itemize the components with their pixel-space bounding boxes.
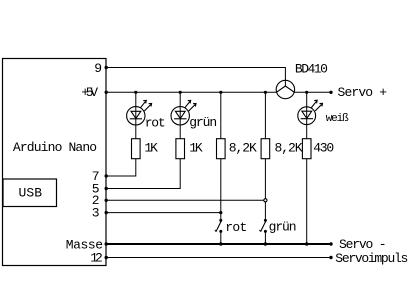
Arduino Nano box U1 [3, 59, 107, 266]
svg-text:8,2K: 8,2K [275, 140, 303, 155]
node junction S2 on Masse [264, 242, 267, 245]
node junction R5 on Masse [305, 242, 308, 245]
svg-text:rot: rot [145, 115, 166, 130]
wire rot LED column (rail to R1) [135, 92, 137, 139]
wire pin9 to transistor base [106, 68, 285, 87]
wire R2 bottom to pin5 corner [106, 159, 180, 189]
transistor Q1 BD410 [276, 80, 294, 98]
svg-text:Servo +: Servo + [338, 85, 388, 100]
pin 9 connection dot [105, 66, 108, 69]
resistor R1 1K [132, 139, 141, 159]
wire pin2 to node [106, 199, 265, 201]
svg-text:Servoimpuls: Servoimpuls [335, 251, 408, 266]
terminal dot Servoimpuls [329, 256, 332, 259]
wire R3 bottom to switch S1 [220, 159, 222, 221]
wire pin3 to node [106, 212, 221, 214]
node junction gruen LED column on +5V [179, 91, 182, 94]
wire R4 column (rail to R4) [264, 92, 266, 139]
node junction R3 column on +5V [219, 91, 222, 94]
node pin2 / R4 / S2 (open ring) [264, 199, 267, 202]
svg-text:9: 9 [94, 61, 102, 76]
wire +5V rail left segment [106, 91, 276, 93]
node junction R4 column on +5V [264, 91, 267, 94]
svg-text:12: 12 [90, 251, 103, 266]
resistor R2 1K [176, 139, 185, 159]
svg-text:8,2K: 8,2K [229, 140, 257, 155]
pin 12 connection dot [105, 256, 108, 259]
node junction rot LED column on +5V [134, 91, 137, 94]
svg-text:+5V: +5V [81, 85, 98, 100]
LED D1 rot [127, 100, 152, 125]
svg-text:rot: rot [225, 220, 247, 235]
node junction weiss column on emitter rail [305, 91, 308, 94]
pin 2 connection dot [105, 199, 108, 202]
terminal dot Servo + [329, 91, 332, 94]
node junction S1 on Masse [219, 242, 222, 245]
svg-text:USB: USB [19, 186, 43, 201]
wire R5 bottom to Masse rail [306, 159, 308, 244]
resistor R4 8,2K [261, 139, 270, 159]
wire R4 bottom to switch S2 [264, 159, 266, 221]
node junction pin3 / R3 / S1 [219, 211, 222, 214]
pin 7 connection dot [105, 174, 108, 177]
svg-text:weiß: weiß [326, 113, 349, 125]
USB box [3, 179, 57, 207]
svg-text:grün: grün [189, 115, 217, 130]
wire gruen LED column (rail to R2) [179, 92, 181, 139]
wire Masse rail [106, 243, 331, 245]
wire S2 to Masse rail [264, 231, 266, 244]
wire pin12 Servoimpuls [106, 257, 331, 259]
svg-text:3: 3 [92, 205, 100, 220]
wire S1 to Masse rail [220, 231, 222, 244]
svg-text:grün: grün [269, 220, 297, 235]
svg-text:Arduino Nano: Arduino Nano [13, 140, 97, 155]
switch S2 gruen [260, 219, 267, 233]
terminal dot Servo - [329, 242, 332, 245]
svg-text:BD410: BD410 [295, 62, 328, 77]
wire R3 column (rail to R3) [220, 92, 222, 139]
resistor R3 8,2K [217, 139, 226, 159]
LED D3 weiss [298, 100, 323, 124]
switch S1 rot [215, 219, 222, 233]
svg-text:1K: 1K [144, 141, 158, 156]
resistor R5 430 [302, 139, 311, 159]
pin 5 connection dot [105, 187, 108, 190]
pin Masse connection dot [105, 242, 108, 245]
wire +5V rail right segment [294, 91, 331, 93]
svg-text:1K: 1K [189, 141, 203, 156]
pin 3 connection dot [105, 211, 108, 214]
wire weiss LED column (emitter rail to R5) [306, 92, 308, 139]
wire R1 bottom to pin7 corner [106, 159, 136, 176]
LED D2 gruen [171, 100, 196, 125]
pin +5V connection dot [105, 91, 108, 94]
svg-text:430: 430 [313, 140, 334, 155]
